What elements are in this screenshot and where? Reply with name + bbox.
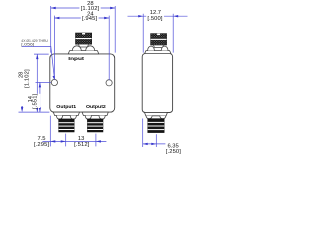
flange plate: [68, 51, 99, 54]
left dim 28 line: [36, 54, 38, 112]
svg-text:[.250]: [.250]: [166, 149, 181, 155]
left dim 28 ext lines: [19, 54, 50, 112]
left 28 arrows: [36, 54, 38, 59]
28 top arrows: [51, 7, 56, 9]
hole callout leader: [22, 46, 55, 78]
left dim 14 line: [39, 82, 41, 112]
svg-text:[1.102]: [1.102]: [25, 69, 31, 88]
dim 6.35 ext lines: [143, 119, 157, 148]
6.35 arrows: [143, 143, 148, 145]
13 right arrow (outside): [96, 140, 101, 142]
dim 28 top ext lines: [51, 6, 116, 53]
dim 12.7 line + tails: [128, 15, 188, 17]
output2 flange plate: [82, 112, 108, 115]
svg-text:[.551]: [.551]: [32, 93, 38, 108]
svg-text:[.295]: [.295]: [34, 142, 49, 148]
svg-text:13: 13: [78, 136, 84, 142]
body front view: [50, 54, 115, 112]
extra down arrow on bottom-left ext: [21, 107, 23, 112]
side bottom flange plate: [145, 113, 168, 116]
7.5 arrows: [50, 140, 55, 142]
left dim 14 ext line: [36, 81, 51, 83]
dim 12.7 ext lines: [143, 14, 173, 53]
dim 6.35 line: [143, 143, 166, 145]
dim 24 ext lines: [54, 16, 109, 81]
knurled nut: [76, 33, 92, 44]
left 14 arrows: [39, 82, 41, 87]
mounting hole right: [106, 80, 112, 86]
bottom ext lines: [50, 116, 96, 147]
body side view: [142, 54, 172, 113]
svg-text:28: 28: [18, 72, 24, 78]
svg-text:Output2: Output2: [86, 104, 106, 109]
side top connector: [145, 34, 171, 54]
dome screws: [72, 46, 81, 51]
neck: [78, 44, 88, 47]
output2 connector (bottom right): [82, 112, 108, 132]
side bottom connector: [145, 113, 168, 133]
svg-text:[.945]: [.945]: [82, 16, 97, 22]
arrowheads: [21, 7, 178, 145]
input connector (top, SMA): [68, 33, 99, 54]
output1 flange plate: [53, 112, 79, 115]
svg-text:[.512]: [.512]: [74, 142, 89, 148]
svg-text:Output1: Output1: [56, 104, 76, 109]
24 arrows: [54, 17, 59, 19]
svg-text:[.500]: [.500]: [147, 16, 162, 22]
12.7 arrows (outside): [138, 15, 143, 17]
dim 28 top line: [51, 7, 116, 9]
mounting hole left: [51, 79, 57, 85]
dim 7.5 + 13 line: [42, 140, 106, 142]
svg-text:7.5: 7.5: [37, 136, 45, 142]
callout leader arrow: [53, 76, 55, 80]
dim 24 line: [54, 17, 109, 19]
text backgrounds (mask dim lines): [25, 5, 164, 108]
svg-text:[.056]: [.056]: [21, 42, 34, 46]
output1 connector (bottom left): [53, 112, 79, 132]
side top knurled nut: [151, 34, 167, 45]
svg-text:Input: Input: [68, 56, 84, 61]
